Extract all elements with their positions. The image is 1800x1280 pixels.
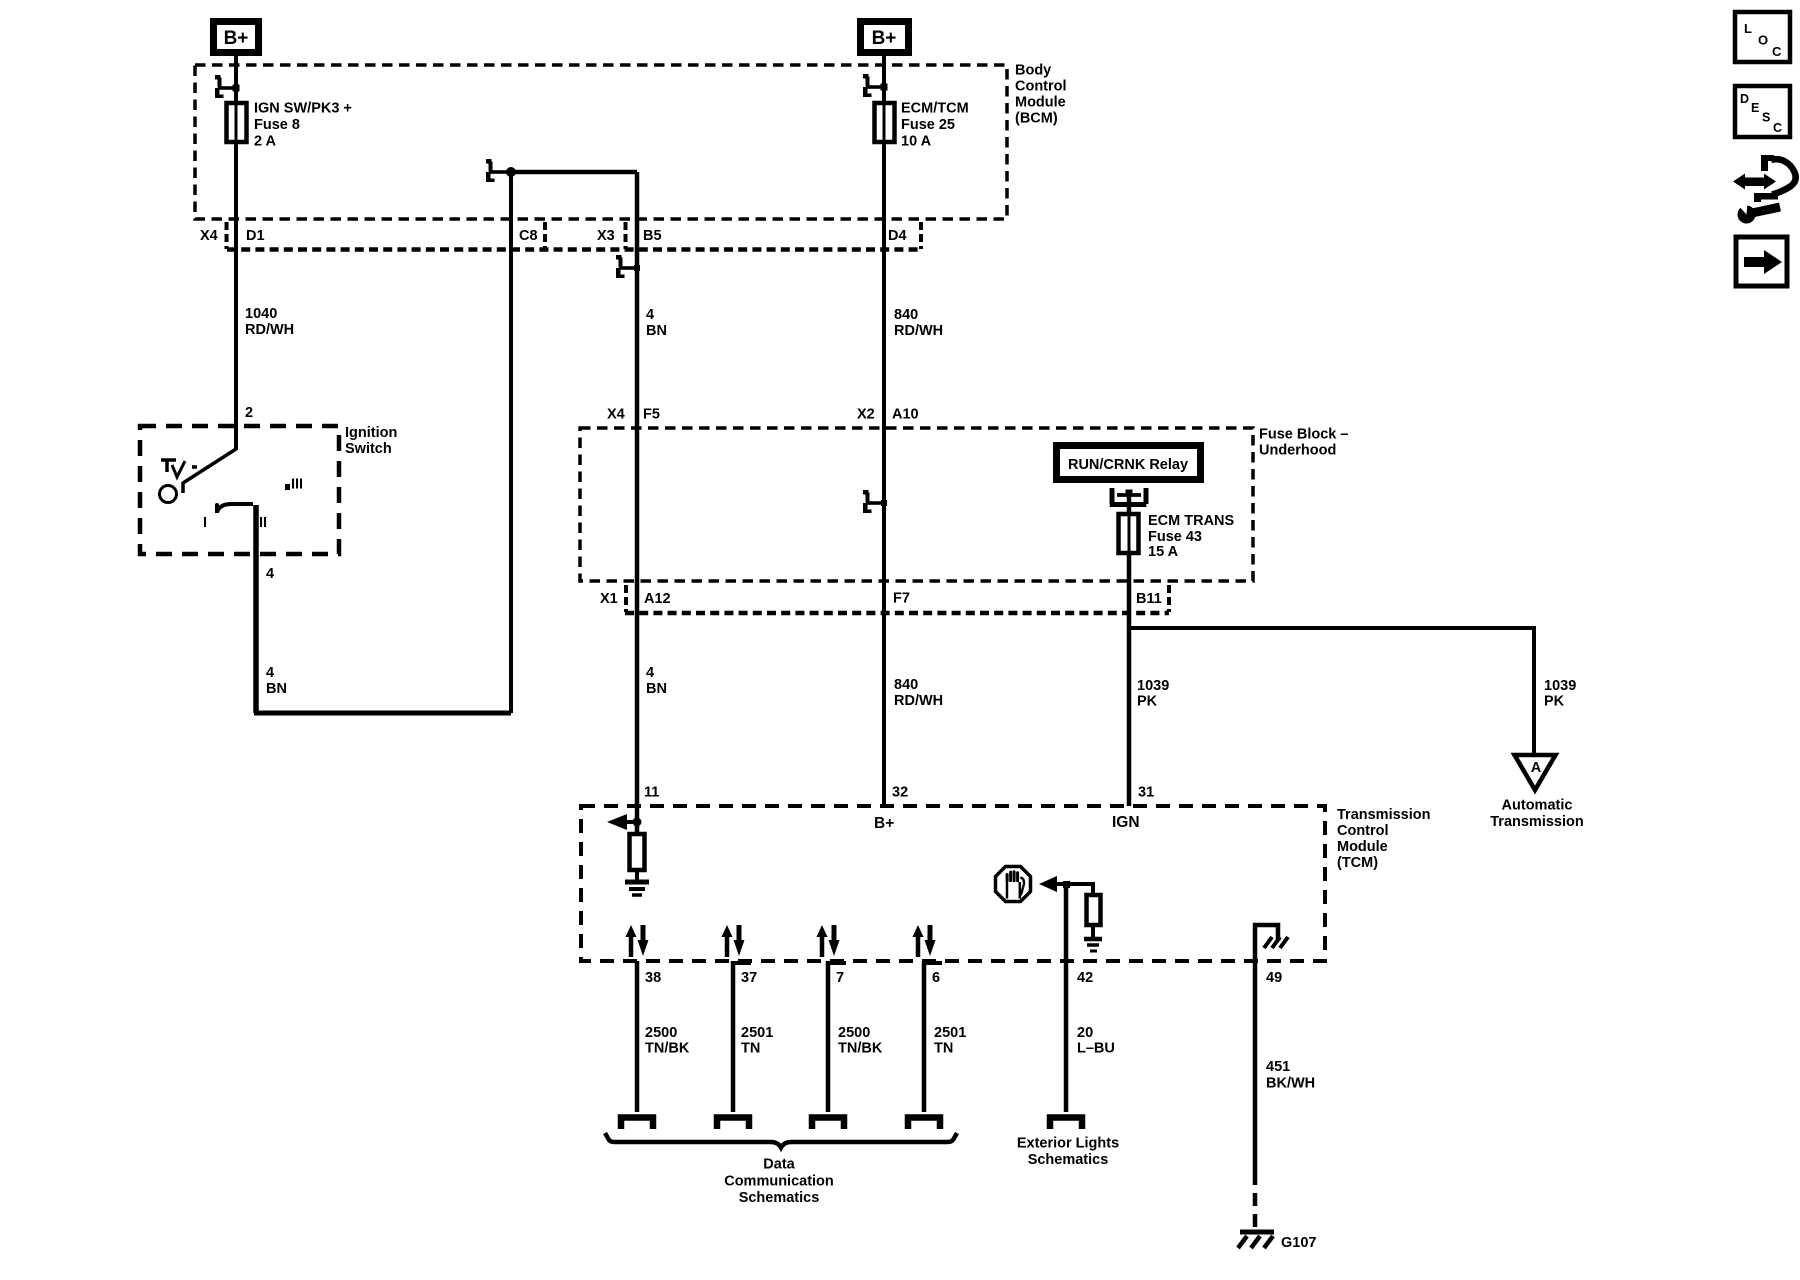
svg-text:A12: A12 bbox=[644, 591, 671, 607]
svg-text:C8: C8 bbox=[519, 228, 538, 244]
svg-text:2: 2 bbox=[245, 405, 253, 421]
svg-text:F5: F5 bbox=[643, 407, 660, 423]
svg-text:D: D bbox=[1740, 92, 1749, 106]
svg-text:BN: BN bbox=[266, 681, 287, 697]
svg-text:1039: 1039 bbox=[1544, 678, 1576, 694]
svg-text:Schematics: Schematics bbox=[1028, 1152, 1109, 1168]
svg-text:Control: Control bbox=[1337, 823, 1389, 839]
svg-text:ECM TRANS: ECM TRANS bbox=[1148, 513, 1235, 529]
svg-text:6: 6 bbox=[932, 970, 940, 986]
svg-text:B5: B5 bbox=[643, 228, 662, 244]
svg-text:D4: D4 bbox=[888, 228, 907, 244]
svg-text:II: II bbox=[259, 515, 267, 531]
svg-text:BN: BN bbox=[646, 323, 667, 339]
svg-text:840: 840 bbox=[894, 307, 918, 323]
svg-text:X3: X3 bbox=[597, 228, 615, 244]
svg-text:BK/WH: BK/WH bbox=[1266, 1076, 1315, 1092]
svg-text:2501: 2501 bbox=[741, 1025, 773, 1041]
svg-text:32: 32 bbox=[892, 785, 908, 801]
svg-text:4: 4 bbox=[646, 665, 654, 681]
svg-text:2 A: 2 A bbox=[254, 134, 277, 150]
svg-text:Switch: Switch bbox=[345, 441, 392, 457]
svg-text:L: L bbox=[1744, 21, 1752, 36]
svg-text:Schematics: Schematics bbox=[739, 1190, 820, 1206]
svg-text:451: 451 bbox=[1266, 1059, 1290, 1075]
svg-text:1040: 1040 bbox=[245, 306, 277, 322]
svg-text:15 A: 15 A bbox=[1148, 544, 1179, 560]
svg-text:Fuse 8: Fuse 8 bbox=[254, 117, 300, 133]
svg-text:ECM/TCM: ECM/TCM bbox=[901, 101, 969, 117]
svg-text:Fuse 43: Fuse 43 bbox=[1148, 529, 1202, 545]
svg-text:RUN/CRNK Relay: RUN/CRNK Relay bbox=[1068, 457, 1188, 473]
svg-text:B+: B+ bbox=[872, 28, 897, 49]
svg-text:Underhood: Underhood bbox=[1259, 443, 1336, 459]
svg-text:D1: D1 bbox=[246, 228, 265, 244]
svg-text:B11: B11 bbox=[1136, 591, 1162, 607]
svg-text:Automatic: Automatic bbox=[1502, 798, 1573, 814]
svg-text:Transmission: Transmission bbox=[1490, 814, 1583, 830]
svg-text:RD/WH: RD/WH bbox=[245, 322, 294, 338]
svg-text:10 A: 10 A bbox=[901, 134, 932, 150]
svg-text:7: 7 bbox=[836, 970, 844, 986]
svg-text:X2: X2 bbox=[857, 407, 875, 423]
svg-text:III: III bbox=[291, 477, 303, 493]
svg-text:A: A bbox=[1531, 760, 1542, 776]
svg-text:TN/BK: TN/BK bbox=[645, 1041, 690, 1057]
svg-text:S: S bbox=[1762, 111, 1770, 125]
svg-text:840: 840 bbox=[894, 677, 918, 693]
svg-text:31: 31 bbox=[1138, 785, 1154, 801]
svg-text:I: I bbox=[203, 515, 207, 531]
svg-text:Fuse 25: Fuse 25 bbox=[901, 117, 955, 133]
svg-text:X4: X4 bbox=[200, 228, 218, 244]
svg-text:X4: X4 bbox=[607, 407, 625, 423]
svg-text:PK: PK bbox=[1544, 694, 1565, 710]
svg-text:1039: 1039 bbox=[1137, 678, 1169, 694]
svg-text:Module: Module bbox=[1015, 95, 1066, 111]
svg-text:Ignition: Ignition bbox=[345, 425, 397, 441]
svg-text:2501: 2501 bbox=[934, 1025, 966, 1041]
svg-text:Module: Module bbox=[1337, 839, 1388, 855]
svg-text:Transmission: Transmission bbox=[1337, 807, 1430, 823]
svg-text:42: 42 bbox=[1077, 970, 1093, 986]
svg-text:TN: TN bbox=[934, 1041, 953, 1057]
svg-text:X1: X1 bbox=[600, 591, 618, 607]
svg-text:RD/WH: RD/WH bbox=[894, 693, 943, 709]
svg-text:F7: F7 bbox=[893, 591, 910, 607]
svg-text:B+: B+ bbox=[874, 815, 894, 832]
svg-text:(TCM): (TCM) bbox=[1337, 855, 1378, 871]
svg-text:4: 4 bbox=[266, 665, 274, 681]
svg-text:IGN SW/PK3 +: IGN SW/PK3 + bbox=[254, 101, 352, 117]
svg-text:L–BU: L–BU bbox=[1077, 1041, 1115, 1057]
svg-text:4: 4 bbox=[266, 566, 274, 582]
svg-text:38: 38 bbox=[645, 970, 661, 986]
svg-text:A10: A10 bbox=[892, 407, 919, 423]
svg-text:C: C bbox=[1772, 44, 1782, 59]
svg-text:20: 20 bbox=[1077, 1025, 1093, 1041]
svg-text:Communication: Communication bbox=[724, 1174, 834, 1190]
svg-text:Control: Control bbox=[1015, 79, 1067, 95]
svg-text:Body: Body bbox=[1015, 63, 1051, 79]
svg-text:IGN: IGN bbox=[1112, 814, 1140, 831]
svg-text:G107: G107 bbox=[1281, 1235, 1316, 1251]
svg-text:Data: Data bbox=[763, 1157, 795, 1173]
svg-text:TN: TN bbox=[741, 1041, 760, 1057]
svg-text:2500: 2500 bbox=[645, 1025, 677, 1041]
svg-text:PK: PK bbox=[1137, 694, 1158, 710]
svg-text:C: C bbox=[1773, 121, 1782, 135]
svg-text:4: 4 bbox=[646, 307, 654, 323]
svg-text:RD/WH: RD/WH bbox=[894, 323, 943, 339]
svg-text:49: 49 bbox=[1266, 970, 1282, 986]
svg-text:Exterior Lights: Exterior Lights bbox=[1017, 1136, 1119, 1152]
svg-text:11: 11 bbox=[644, 785, 659, 801]
svg-text:37: 37 bbox=[741, 970, 757, 986]
svg-text:Fuse Block –: Fuse Block – bbox=[1259, 427, 1348, 443]
svg-text:TN/BK: TN/BK bbox=[838, 1041, 883, 1057]
svg-text:2500: 2500 bbox=[838, 1025, 870, 1041]
svg-text:BN: BN bbox=[646, 681, 667, 697]
svg-text:E: E bbox=[1751, 101, 1759, 115]
svg-text:B+: B+ bbox=[224, 28, 249, 49]
svg-text:O: O bbox=[1758, 33, 1768, 48]
svg-text:(BCM): (BCM) bbox=[1015, 111, 1058, 127]
